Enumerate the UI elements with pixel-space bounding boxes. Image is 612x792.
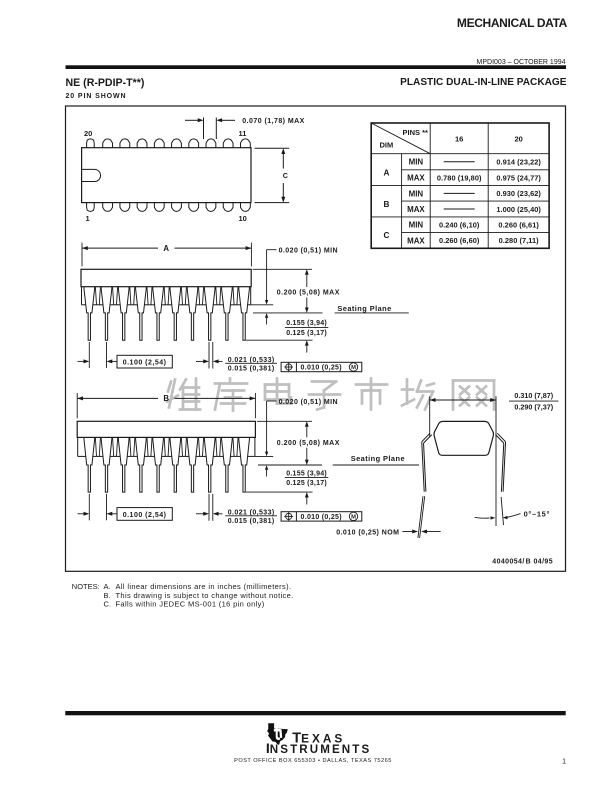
dimension C extension lines bbox=[255, 147, 290, 149]
side view B lead 5 bbox=[153, 437, 164, 492]
side view A lead 9 bbox=[222, 287, 233, 341]
top view pin bump top row 16 bbox=[154, 139, 164, 148]
side view B dambar segment gap 5 bbox=[162, 455, 172, 457]
footer rule bar bbox=[65, 711, 565, 715]
body top extension line bbox=[257, 420, 312, 422]
side view A dambar segment gap 8 bbox=[213, 304, 223, 306]
top view pin bump top row 13 bbox=[206, 139, 216, 148]
svg-text:A: A bbox=[383, 169, 389, 178]
svg-text:Seating Plane: Seating Plane bbox=[351, 454, 405, 463]
dambar extension line bbox=[251, 304, 274, 306]
side view A lead 6 bbox=[170, 287, 181, 341]
svg-text:MECHANICAL DATA: MECHANICAL DATA bbox=[457, 16, 568, 30]
svg-text:0.975 (24,77): 0.975 (24,77) bbox=[496, 174, 541, 183]
side view A far lead hint in gap 2 bbox=[113, 287, 114, 305]
side view B far lead hint in gap 3 bbox=[130, 438, 131, 457]
svg-text:MIN: MIN bbox=[409, 189, 424, 198]
side view A far lead hint in gap 5 bbox=[164, 287, 165, 305]
svg-text:Seating Plane: Seating Plane bbox=[337, 304, 391, 313]
top view pin bump bottom row 5 bbox=[154, 203, 164, 212]
dimension B line bbox=[77, 397, 158, 399]
feature control frame true-position 0.010 (0,25) M bbox=[281, 362, 362, 371]
svg-text:0.260 (6,61): 0.260 (6,61) bbox=[498, 220, 539, 229]
top view pin bump bottom row 10 bbox=[240, 203, 250, 212]
top view pin bump bottom row 9 bbox=[223, 203, 233, 212]
table dash col16 row 2 bbox=[444, 192, 475, 194]
svg-text:0.010 (0,25): 0.010 (0,25) bbox=[301, 365, 342, 372]
dimension 0.070 (1,78) MAX extension lines bbox=[203, 118, 205, 140]
body top extension line bbox=[253, 268, 312, 270]
svg-text:A: A bbox=[163, 244, 169, 253]
side view B far lead hint in gap 6 bbox=[181, 438, 182, 457]
top view pin bump top row 17 bbox=[137, 139, 147, 148]
svg-text:11: 11 bbox=[239, 129, 247, 138]
side view A lead 2 bbox=[101, 287, 112, 341]
svg-text:PINS **: PINS ** bbox=[403, 128, 429, 137]
top view pin bump bottom row 4 bbox=[137, 203, 147, 212]
end view left lead splayed extension bbox=[418, 496, 423, 538]
svg-text:M: M bbox=[351, 515, 356, 521]
side view B far lead hint in gap 1 bbox=[95, 438, 96, 457]
side view A dambar line left end segment bbox=[82, 304, 86, 306]
side view B dambar segment gap 1 bbox=[93, 455, 103, 457]
svg-text:B: B bbox=[163, 394, 169, 403]
side view B lead 10 bbox=[239, 437, 250, 492]
svg-text:1: 1 bbox=[562, 759, 566, 766]
pin bottom extension line bbox=[246, 339, 313, 341]
0.020 lower arrow at seating plane bbox=[265, 465, 268, 470]
dimension 0.021/0.015 arrows bbox=[196, 513, 204, 515]
side view A dambar segment gap 4 bbox=[144, 304, 154, 306]
side view A dambar line right end segment bbox=[248, 304, 251, 306]
dimension 0.200 (5,08) MAX bbox=[305, 269, 309, 274]
side view B lead 3 bbox=[118, 437, 129, 492]
svg-text:4040054/ B 04/95: 4040054/ B 04/95 bbox=[492, 559, 553, 566]
dimension A extension ticks bbox=[81, 243, 83, 267]
side view B left end edge bbox=[77, 437, 79, 456]
svg-text:0°–15°: 0°–15° bbox=[524, 510, 551, 519]
top view pin bump bottom row 1 bbox=[87, 203, 95, 212]
side view A dambar segment gap 7 bbox=[196, 304, 206, 306]
dimension 0.020 leader bbox=[267, 249, 277, 251]
side view B lead 6 bbox=[170, 437, 181, 492]
svg-text:NE (R-PDIP-T**): NE (R-PDIP-T**) bbox=[66, 77, 145, 89]
dimension B extension ticks bbox=[76, 393, 78, 418]
svg-text:B: B bbox=[383, 200, 389, 209]
svg-text:0.015 (0,381): 0.015 (0,381) bbox=[228, 518, 275, 525]
side view A dambar segment gap 3 bbox=[127, 304, 137, 306]
svg-text:0.125 (3,17): 0.125 (3,17) bbox=[286, 330, 327, 337]
svg-text:MPDI003 – OCTOBER 1994: MPDI003 – OCTOBER 1994 bbox=[477, 59, 566, 66]
side view A dambar segment gap 2 bbox=[110, 304, 120, 306]
dambar extension line bbox=[255, 455, 273, 457]
top view pin bump bottom row 7 bbox=[189, 203, 199, 212]
svg-text:0.280 (7,11): 0.280 (7,11) bbox=[499, 236, 540, 245]
side view A dambar segment gap 9 bbox=[230, 304, 240, 306]
pin pitch extension lines bbox=[88, 494, 90, 520]
side view B package body bbox=[77, 421, 255, 437]
side view B lead 7 bbox=[187, 437, 198, 492]
side view B far lead hint in gap 7 bbox=[199, 438, 200, 457]
svg-text:1: 1 bbox=[86, 214, 90, 223]
end view package body bbox=[434, 421, 494, 455]
top view pin bump top row 11 bbox=[240, 139, 250, 148]
svg-text:0.015 (0,381): 0.015 (0,381) bbox=[228, 366, 275, 373]
pins table header diagonal bbox=[371, 123, 430, 154]
side view A far lead hint in gap 1 bbox=[95, 287, 96, 305]
side view A lead 7 bbox=[187, 287, 198, 341]
top view pin bump bottom row 3 bbox=[120, 203, 130, 212]
top view pin bump top row 15 bbox=[172, 139, 182, 148]
side view B dambar line right end segment bbox=[248, 455, 255, 457]
svg-text:20: 20 bbox=[84, 129, 92, 138]
top view index notch bbox=[82, 169, 101, 181]
side view A far lead hint in gap 6 bbox=[181, 287, 182, 305]
end view left lead bbox=[422, 433, 430, 492]
side view B lead 1 bbox=[84, 437, 95, 492]
feature control frame true-position 0.010 (0,25) M bbox=[281, 512, 362, 521]
side view A lead 1 bbox=[84, 287, 95, 341]
end view right lead splayed reference line bbox=[501, 497, 503, 525]
side view B right end edge bbox=[254, 437, 256, 456]
dimension C arrows bbox=[281, 148, 285, 154]
side view B dambar line left end segment bbox=[78, 455, 86, 457]
pins table column dividers bbox=[401, 154, 403, 249]
svg-text:M: M bbox=[351, 365, 356, 371]
svg-text:20 PIN SHOWN: 20 PIN SHOWN bbox=[66, 93, 127, 100]
top view package body bbox=[82, 148, 251, 203]
watermark chinese characters bbox=[167, 379, 494, 411]
lead width extension lines bbox=[208, 494, 210, 521]
svg-text:INSTRUMENTS: INSTRUMENTS bbox=[266, 740, 371, 756]
side view B dambar segment gap 8 bbox=[213, 455, 223, 457]
svg-text:PLASTIC DUAL-IN-LINE PACKAGE: PLASTIC DUAL-IN-LINE PACKAGE bbox=[400, 77, 567, 88]
svg-text:C.: C. bbox=[104, 599, 112, 608]
drawing frame border bbox=[66, 106, 566, 571]
svg-text:C: C bbox=[283, 171, 288, 180]
side view A right end edge bbox=[250, 287, 252, 305]
table dash col16 row 0 bbox=[444, 161, 475, 163]
side view A lead 3 bbox=[118, 287, 129, 341]
svg-text:0.240 (6,10): 0.240 (6,10) bbox=[439, 220, 480, 229]
dimension 0.020 leader bbox=[267, 400, 277, 402]
svg-text:NOTES:: NOTES: bbox=[72, 582, 100, 591]
svg-text:Falls within JEDEC MS-001 (16: Falls within JEDEC MS-001 (16 pin only) bbox=[116, 599, 265, 608]
side view A far lead hint in gap 9 bbox=[233, 287, 234, 305]
svg-text:10: 10 bbox=[239, 214, 247, 223]
0.155 lower arrow bbox=[305, 492, 309, 497]
side view B dambar segment gap 2 bbox=[110, 455, 120, 457]
side view B far lead hint in gap 4 bbox=[147, 438, 148, 457]
svg-text:0.100 (2,54): 0.100 (2,54) bbox=[123, 360, 167, 367]
pin bottom extension line bbox=[246, 491, 313, 493]
side view B dambar segment gap 4 bbox=[144, 455, 154, 457]
svg-text:0.290 (7,37): 0.290 (7,37) bbox=[514, 403, 553, 412]
svg-text:0.155 (3,94): 0.155 (3,94) bbox=[286, 320, 327, 327]
end view right lead bbox=[497, 433, 505, 492]
dimension 0.021/0.015 arrows bbox=[196, 360, 204, 362]
top view pin bump top row 18 bbox=[120, 139, 130, 148]
svg-text:0.914 (23,22): 0.914 (23,22) bbox=[496, 158, 541, 167]
dimension 0.100 (2,54) boxed bbox=[78, 360, 85, 362]
end view dimension extension lines bbox=[429, 396, 431, 436]
top view pin bump bottom row 8 bbox=[206, 203, 216, 212]
pin pitch extension lines bbox=[88, 342, 90, 368]
svg-text:0.070 (1,78) MAX: 0.070 (1,78) MAX bbox=[242, 118, 304, 125]
svg-text:20: 20 bbox=[514, 135, 522, 144]
svg-text:0.010 (0,25) NOM: 0.010 (0,25) NOM bbox=[336, 530, 399, 537]
svg-text:0.930 (23,62): 0.930 (23,62) bbox=[496, 189, 541, 198]
svg-text:MAX: MAX bbox=[407, 236, 425, 245]
svg-text:0.010 (0,25): 0.010 (0,25) bbox=[301, 514, 342, 521]
svg-text:MIN: MIN bbox=[409, 221, 424, 230]
svg-text:0.780 (19,80): 0.780 (19,80) bbox=[437, 174, 482, 183]
dimension A line bbox=[82, 247, 158, 249]
dimension 0.100 (2,54) boxed bbox=[78, 513, 85, 515]
side view A lead 5 bbox=[153, 287, 164, 341]
dimension 0.070 arrows bbox=[185, 119, 199, 121]
seating plane line bbox=[258, 464, 322, 466]
svg-text:0.155 (3,94): 0.155 (3,94) bbox=[286, 470, 327, 477]
svg-text:0.020 (0,51) MIN: 0.020 (0,51) MIN bbox=[279, 248, 338, 255]
side view A dambar segment gap 5 bbox=[162, 304, 172, 306]
top view pin bump top row 20 bbox=[87, 139, 95, 148]
svg-text:16: 16 bbox=[455, 135, 463, 144]
TI logo Texas map bbox=[267, 723, 288, 745]
pins table row lines bbox=[371, 153, 549, 155]
svg-text:0.260 (6,60): 0.260 (6,60) bbox=[439, 236, 480, 245]
0.155 lower arrow bbox=[305, 340, 309, 345]
side view A package body bbox=[81, 269, 251, 286]
side view A far lead hint in gap 7 bbox=[199, 287, 200, 305]
0.020 lower arrow at seating plane bbox=[265, 313, 268, 318]
side view A dambar segment gap 1 bbox=[93, 304, 103, 306]
lead width extension lines bbox=[208, 342, 210, 369]
svg-text:0.125 (3,17): 0.125 (3,17) bbox=[286, 480, 327, 487]
svg-text:MIN: MIN bbox=[409, 158, 424, 167]
svg-text:0.200 (5,08) MAX: 0.200 (5,08) MAX bbox=[277, 440, 340, 447]
side view B dambar segment gap 9 bbox=[230, 455, 240, 457]
side view A lead 10 bbox=[239, 287, 250, 341]
top view pin bump bottom row 2 bbox=[103, 203, 113, 212]
top view pin bump top row 12 bbox=[223, 139, 233, 148]
svg-text:1.000 (25,40): 1.000 (25,40) bbox=[496, 205, 541, 214]
side view A far lead hint in gap 8 bbox=[216, 287, 217, 305]
header rule bar bbox=[66, 65, 567, 69]
side view A far lead hint in gap 3 bbox=[130, 287, 131, 305]
side view B far lead hint in gap 2 bbox=[113, 438, 114, 457]
seating plane line bbox=[253, 312, 323, 314]
svg-text:MAX: MAX bbox=[407, 174, 425, 183]
svg-text:0.100 (2,54): 0.100 (2,54) bbox=[123, 512, 167, 519]
svg-text:0.200 (5,08) MAX: 0.200 (5,08) MAX bbox=[277, 290, 340, 297]
table dash col16 row 3 bbox=[444, 208, 475, 210]
svg-text:MAX: MAX bbox=[407, 205, 425, 214]
side view A lead 4 bbox=[136, 287, 147, 341]
side view B lead 8 bbox=[204, 437, 215, 492]
side view B far lead hint in gap 5 bbox=[164, 438, 165, 457]
side view B dambar segment gap 7 bbox=[196, 455, 206, 457]
svg-text:0.310 (7,87): 0.310 (7,87) bbox=[514, 391, 553, 400]
side view A far lead hint in gap 4 bbox=[147, 287, 148, 305]
svg-text:C: C bbox=[383, 231, 389, 240]
svg-text:POST OFFICE BOX 655303 • DALLA: POST OFFICE BOX 655303 • DALLAS, TEXAS 7… bbox=[234, 758, 392, 764]
svg-text:0.020 (0,51) MIN: 0.020 (0,51) MIN bbox=[279, 399, 338, 406]
dimension 0.200 (5,08) MAX bbox=[305, 421, 309, 426]
side view B dambar segment gap 3 bbox=[127, 455, 137, 457]
top view pin bump bottom row 6 bbox=[172, 203, 182, 212]
side view B far lead hint in gap 9 bbox=[233, 438, 234, 457]
side view B far lead hint in gap 8 bbox=[216, 438, 217, 457]
side view B lead 4 bbox=[136, 437, 147, 492]
side view B dambar segment gap 6 bbox=[179, 455, 189, 457]
top view pin bump top row 19 bbox=[103, 139, 113, 148]
pins table outer border bbox=[371, 123, 549, 248]
end view 0.310/0.290 dimension line bbox=[430, 399, 496, 401]
side view A left end edge bbox=[81, 287, 83, 305]
svg-text:DIM: DIM bbox=[380, 141, 394, 150]
side view B lead 9 bbox=[222, 437, 233, 492]
side view B lead 2 bbox=[101, 437, 112, 492]
side view A dambar segment gap 6 bbox=[179, 304, 189, 306]
top view pin bump top row 14 bbox=[189, 139, 199, 148]
side view A lead 8 bbox=[204, 287, 215, 341]
